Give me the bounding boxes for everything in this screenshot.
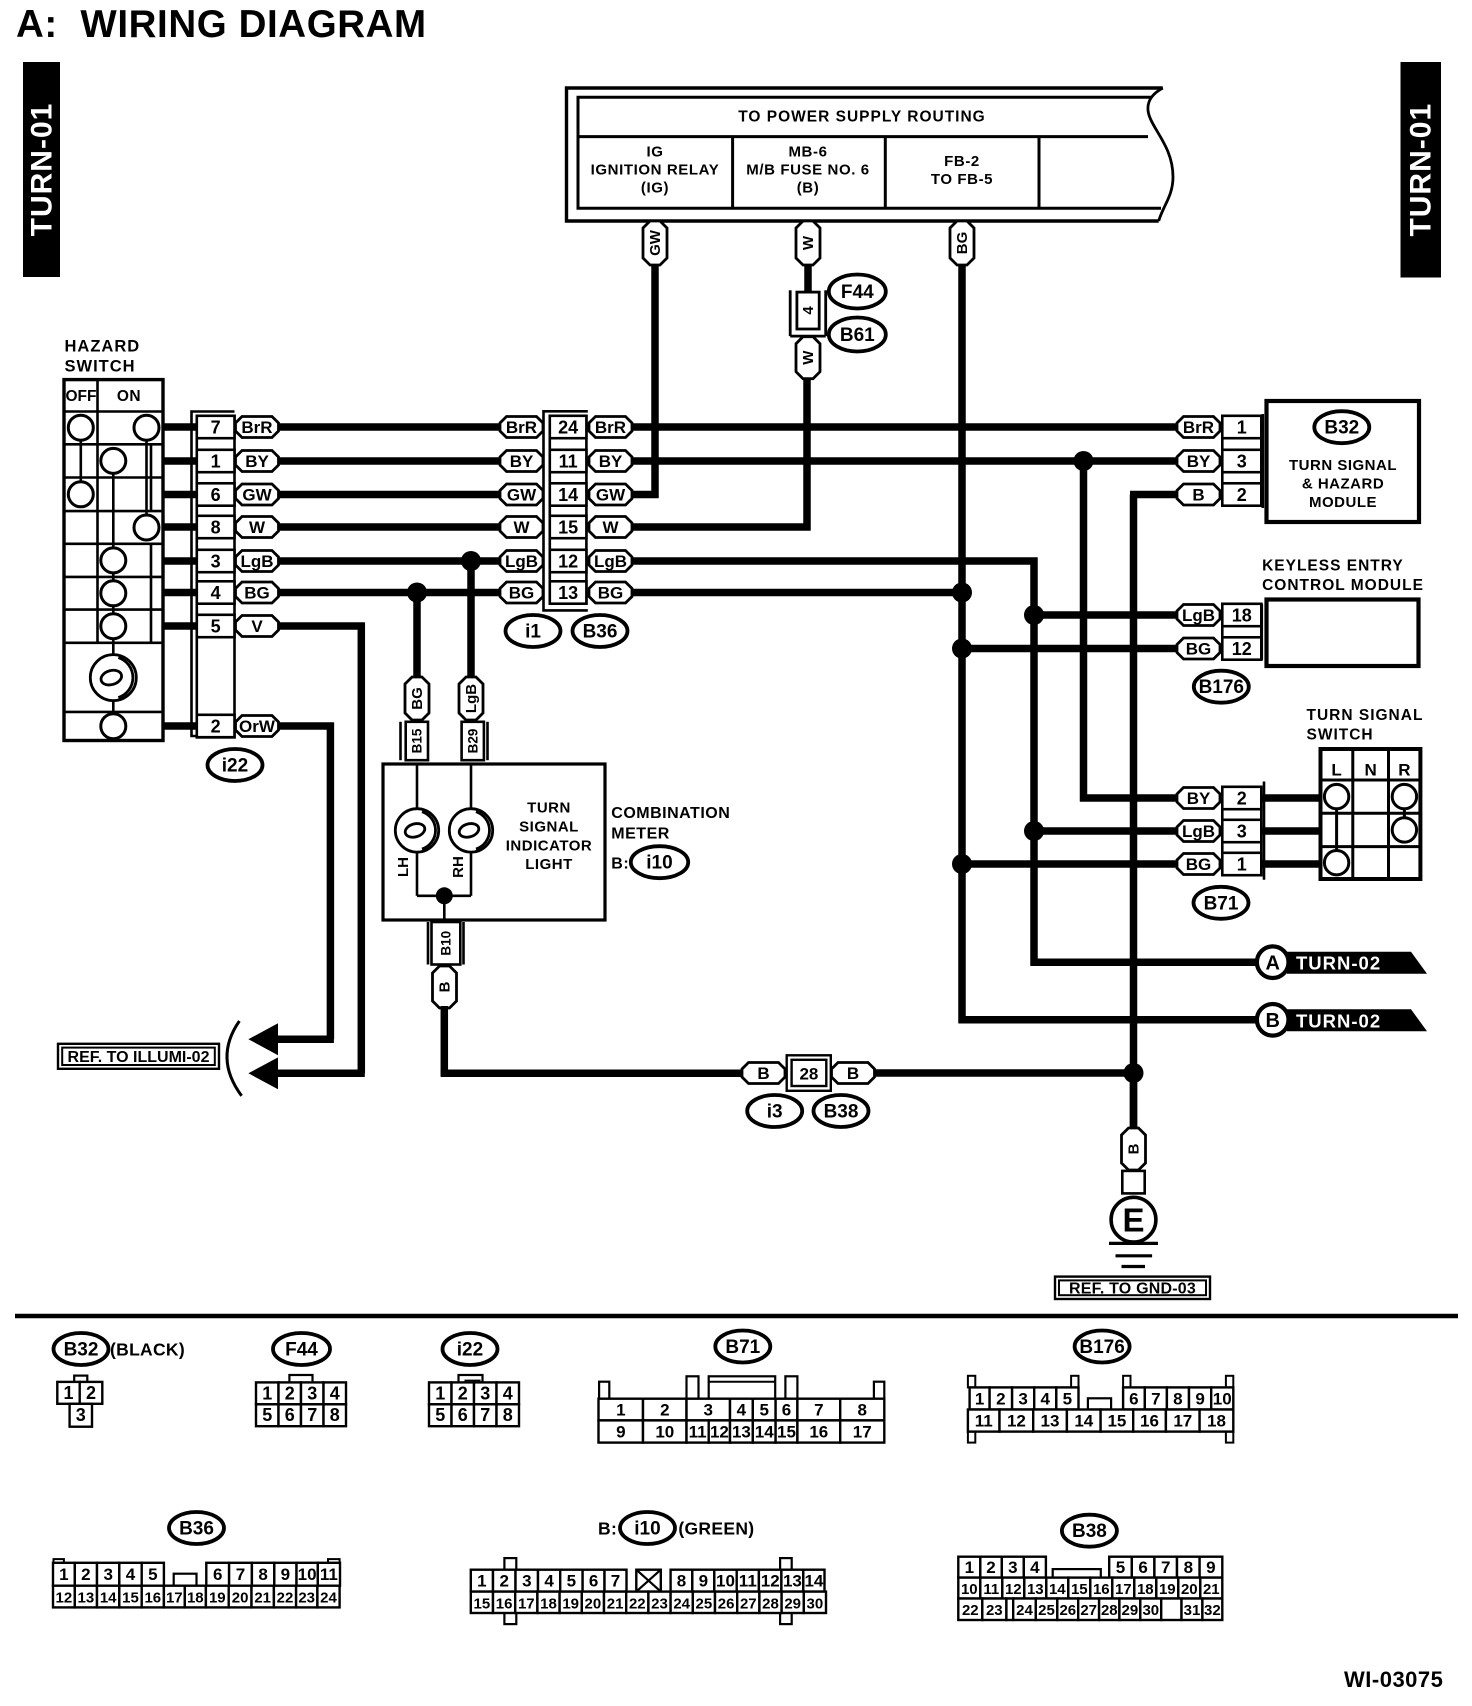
wire LgB down to B29 [467,561,475,678]
svg-text:4: 4 [800,306,817,315]
svg-text:V: V [251,617,263,636]
svg-text:8: 8 [1184,1558,1193,1577]
wire LgB to turn signal switch [1034,827,1177,835]
svg-text:21: 21 [254,1590,271,1607]
svg-text:5: 5 [759,1401,768,1420]
keyless module wire labels [1177,605,1220,660]
svg-text:12: 12 [1005,1581,1022,1598]
svg-text:1: 1 [211,451,221,471]
turn signal switch wire labels [1177,788,1220,875]
svg-text:17: 17 [853,1423,872,1442]
svg-text:4: 4 [1030,1558,1040,1577]
svg-text:6: 6 [211,485,221,505]
svg-text:8: 8 [330,1405,340,1425]
svg-text:TURN-02: TURN-02 [1296,1010,1381,1031]
svg-text:BG: BG [1186,855,1212,874]
svg-text:13: 13 [783,1572,802,1591]
svg-text:1: 1 [616,1401,625,1420]
svg-text:LgB: LgB [240,552,273,571]
wires B71 to switch body [1261,798,1322,864]
meter text TURN SIGNAL INDICATOR LIGHT [506,800,592,873]
wire to connector A TURN-02 [1031,959,1261,967]
pin W below fuse [796,337,820,379]
svg-text:TURN SIGNAL: TURN SIGNAL [1289,457,1397,474]
svg-text:8: 8 [503,1405,513,1425]
svg-text:15: 15 [777,1423,796,1442]
bottom connector i22 label [443,1333,498,1365]
svg-text:3: 3 [307,1383,317,1403]
svg-text:24: 24 [1016,1602,1033,1619]
wire splice to ground vertical [875,1069,1138,1077]
right TURN-01 tab [1401,62,1442,278]
svg-text:21: 21 [1203,1581,1220,1598]
svg-text:5: 5 [1063,1390,1072,1409]
svg-text:4: 4 [126,1565,136,1584]
svg-text:11: 11 [559,451,578,471]
wire BrR to turn signal module [633,423,1178,431]
pin LgB above B29 [459,677,483,720]
pin W at power box [796,221,820,265]
junction LgB to meter [461,551,481,571]
svg-text:21: 21 [607,1595,624,1612]
label B32 [1314,411,1369,443]
svg-text:16: 16 [496,1595,513,1612]
svg-text:17: 17 [518,1595,535,1612]
svg-text:B: B [1192,486,1204,505]
svg-text:SWITCH: SWITCH [1307,727,1374,744]
svg-text:COMBINATION: COMBINATION [611,805,730,822]
svg-text:BG: BG [509,584,535,603]
svg-text:BrR: BrR [241,418,272,437]
connector i1 left wire labels [500,417,543,604]
svg-text:B15: B15 [410,728,425,753]
svg-text:WI-03075: WI-03075 [1344,1667,1443,1692]
svg-text:BY: BY [510,452,534,471]
svg-text:18: 18 [1137,1581,1154,1598]
wire LgB to keyless module [1034,611,1177,619]
junction BG switch [952,854,972,874]
pin B below B10 [433,966,457,1008]
svg-text:15: 15 [122,1590,139,1607]
svg-text:TURN-01: TURN-01 [1405,103,1438,237]
svg-text:B:: B: [611,855,629,872]
svg-text:1: 1 [262,1383,272,1403]
svg-text:BG: BG [409,687,426,710]
svg-text:METER: METER [611,825,670,842]
svg-text:& HAZARD: & HAZARD [1302,476,1384,493]
turn signal switch label [1307,707,1424,744]
svg-text:2: 2 [986,1558,995,1577]
bottom connector B36 label [169,1512,224,1544]
svg-text:RH: RH [450,856,467,878]
svg-text:B: B [437,981,454,992]
bottom connector i10 label [598,1512,754,1544]
svg-text:BY: BY [1187,789,1211,808]
svg-text:GW: GW [647,229,664,256]
ref to gnd-03 box [1055,1277,1210,1299]
svg-text:ON: ON [117,388,141,405]
svg-text:23: 23 [986,1602,1003,1619]
combination meter box [383,764,605,920]
svg-text:B38: B38 [1072,1521,1107,1542]
pin BG above B15 [405,677,429,720]
svg-text:9: 9 [699,1572,708,1591]
ref to illumi-02 box [58,1044,219,1069]
connector arrow B TURN-02 [1257,1004,1427,1036]
svg-text:25: 25 [696,1595,713,1612]
svg-text:10: 10 [716,1572,735,1591]
svg-text:14: 14 [100,1590,117,1607]
svg-text:2: 2 [1237,788,1247,808]
keyless module pin cells [1222,604,1262,660]
svg-text:13: 13 [1027,1581,1044,1598]
svg-text:3: 3 [703,1401,712,1420]
connector i3/B38 left pin B [742,1063,785,1084]
svg-text:5: 5 [567,1572,576,1591]
svg-text:BY: BY [245,452,269,471]
svg-text:i10: i10 [646,853,672,874]
svg-text:19: 19 [209,1590,226,1607]
svg-text:3: 3 [1237,451,1247,471]
svg-text:18: 18 [540,1595,557,1612]
svg-text:16: 16 [1093,1581,1110,1598]
power box cell IG IGNITION RELAY (IG) [591,144,720,197]
junction B ground splice [1124,1063,1144,1083]
svg-text:B:: B: [598,1519,617,1539]
bottom connector B32 label [54,1333,109,1365]
svg-text:2: 2 [458,1383,468,1403]
svg-text:12: 12 [1232,639,1252,659]
svg-text:8: 8 [857,1401,866,1420]
svg-text:11: 11 [739,1572,757,1591]
connector i1/B36 pin cells [550,416,587,604]
svg-text:26: 26 [718,1595,735,1612]
svg-text:12: 12 [710,1423,729,1442]
svg-text:3: 3 [1018,1390,1027,1409]
svg-text:28: 28 [762,1595,779,1612]
label B: i10 [611,846,688,878]
svg-text:12: 12 [56,1590,73,1607]
svg-text:22: 22 [962,1602,979,1619]
svg-text:7: 7 [236,1565,245,1584]
svg-text:1: 1 [435,1383,445,1403]
svg-text:3: 3 [1237,821,1247,841]
svg-text:TURN-02: TURN-02 [1296,953,1381,974]
junction BG keyless [952,639,972,659]
wires i22 to i1 [279,427,501,593]
svg-text:3: 3 [76,1405,86,1425]
bottom connector F44 pin layout [256,1375,346,1426]
ground symbol [1109,1243,1158,1266]
svg-text:LgB: LgB [594,552,627,571]
svg-text:4: 4 [544,1572,554,1591]
svg-text:9: 9 [616,1423,625,1442]
svg-text:BG: BG [1186,640,1212,659]
connector B36 right wire labels [589,417,632,604]
svg-text:14: 14 [755,1423,774,1442]
svg-text:2: 2 [996,1390,1005,1409]
svg-text:LgB: LgB [463,684,480,713]
svg-text:B176: B176 [1199,677,1244,698]
svg-text:29: 29 [1122,1602,1139,1619]
svg-text:B38: B38 [824,1102,859,1123]
svg-text:6: 6 [1138,1558,1147,1577]
svg-text:27: 27 [740,1595,757,1612]
svg-text:B71: B71 [725,1337,760,1358]
svg-text:22: 22 [277,1590,294,1607]
hazard switch body [64,380,163,741]
bottom connector B71 label [715,1331,770,1363]
svg-text:5: 5 [1116,1558,1125,1577]
svg-text:B32: B32 [64,1340,99,1361]
connector i22 pin cells [197,416,235,737]
svg-text:9: 9 [1195,1390,1204,1409]
svg-text:6: 6 [1129,1390,1138,1409]
svg-text:19: 19 [562,1595,579,1612]
wire B from module down to ground [1130,495,1177,1130]
svg-text:29: 29 [784,1595,801,1612]
connector i1/B36 frame [544,411,588,610]
junction LgB keyless [1024,605,1044,625]
turn signal switch contacts [1324,784,1416,875]
svg-text:1: 1 [477,1572,486,1591]
svg-text:OFF: OFF [66,388,97,405]
svg-text:LIGHT: LIGHT [525,856,573,873]
hazard switch contacts [68,415,159,739]
svg-text:1: 1 [1237,417,1247,437]
power box cell FB-2 TO FB-5 [931,153,993,188]
svg-text:8: 8 [258,1565,267,1584]
svg-text:M/B FUSE NO. 6: M/B FUSE NO. 6 [746,162,869,179]
ground E circle [1111,1197,1156,1242]
svg-text:23: 23 [651,1595,668,1612]
svg-text:i10: i10 [634,1519,660,1540]
svg-text:LgB: LgB [1182,606,1215,625]
svg-text:REF. TO GND-03: REF. TO GND-03 [1069,1280,1196,1297]
svg-text:32: 32 [1204,1602,1221,1619]
svg-text:i1: i1 [525,622,541,643]
svg-text:13: 13 [732,1423,751,1442]
svg-text:7: 7 [814,1401,823,1420]
ground connector block [1122,1171,1144,1194]
label B36 [573,615,628,647]
svg-text:GW: GW [242,486,272,505]
svg-text:18: 18 [1207,1412,1226,1431]
combination meter label [611,805,730,842]
svg-text:BG: BG [954,232,971,255]
svg-text:R: R [1398,761,1410,780]
label i3 [747,1095,802,1127]
svg-text:7: 7 [211,417,221,437]
svg-text:26: 26 [1059,1602,1076,1619]
svg-text:24: 24 [320,1590,337,1607]
svg-text:GW: GW [596,486,626,505]
svg-text:8: 8 [211,517,221,537]
svg-text:6: 6 [589,1572,598,1591]
wire V to illumination ref [262,623,365,1074]
svg-text:10: 10 [298,1565,317,1584]
svg-text:E: E [1122,1202,1144,1239]
svg-text:B: B [757,1064,769,1083]
svg-text:(GREEN): (GREEN) [678,1519,754,1539]
svg-text:(BLACK): (BLACK) [110,1340,185,1360]
svg-text:12: 12 [1007,1412,1026,1431]
svg-text:LgB: LgB [505,552,538,571]
keyless entry control module box [1267,600,1419,667]
svg-text:2: 2 [211,716,221,736]
wire BY down to turn signal switch [1080,461,1177,802]
svg-text:7: 7 [611,1572,620,1591]
svg-text:9: 9 [1206,1558,1215,1577]
wire LgB to keyless and switch [633,558,1038,966]
keyless entry control module label [1262,558,1424,594]
svg-text:BG: BG [598,584,624,603]
svg-text:4: 4 [503,1383,513,1403]
svg-text:3: 3 [1008,1558,1017,1577]
bottom connector B38 label [1062,1515,1117,1547]
svg-text:BrR: BrR [1183,418,1214,437]
svg-text:15: 15 [1107,1412,1126,1431]
svg-text:REF. TO ILLUMI-02: REF. TO ILLUMI-02 [68,1049,210,1066]
wire B down to ground E [1130,1073,1138,1130]
svg-text:13: 13 [558,583,578,603]
svg-text:L: L [1331,761,1341,780]
svg-text:20: 20 [1181,1581,1198,1598]
svg-text:i22: i22 [457,1340,483,1361]
svg-text:2: 2 [499,1572,508,1591]
junction BG main vertical [952,583,972,603]
meter internal wiring [417,764,471,921]
svg-text:19: 19 [1159,1581,1176,1598]
svg-text:22: 22 [629,1595,646,1612]
svg-text:10: 10 [1213,1390,1232,1409]
svg-text:1: 1 [1237,854,1247,874]
label F44 [829,275,886,309]
svg-text:31: 31 [1184,1602,1201,1619]
svg-text:BY: BY [1187,452,1211,471]
connector i3/B38 right pin B [832,1063,875,1084]
wire OrW to illumination ref [262,723,334,1040]
svg-text:W: W [800,235,817,250]
svg-text:18: 18 [187,1590,204,1607]
svg-text:TURN: TURN [527,800,571,817]
label B61 [829,318,886,352]
svg-text:B: B [1265,1010,1279,1032]
hazard switch label [65,338,141,376]
svg-text:B32: B32 [1324,418,1359,439]
svg-text:F44: F44 [841,282,874,303]
svg-text:14: 14 [558,485,578,505]
bottom connector B32 pin layout [57,1376,102,1427]
svg-text:B: B [1126,1143,1143,1154]
svg-text:17: 17 [166,1590,183,1607]
hazard switch illumination bulb [90,655,136,701]
wire W below fuse down to i1 connector [633,377,811,531]
svg-text:13: 13 [78,1590,95,1607]
svg-text:B71: B71 [1204,893,1239,914]
junction LgB switch [1024,821,1044,841]
svg-text:5: 5 [435,1405,445,1425]
svg-text:18: 18 [1232,605,1252,625]
wire GW from ignition relay down [633,264,659,498]
svg-text:12: 12 [558,551,578,571]
svg-text:7: 7 [307,1405,317,1425]
svg-text:F44: F44 [285,1340,318,1361]
bottom connector F44 label [273,1333,330,1365]
module B32 text [1289,457,1397,511]
svg-text:i3: i3 [767,1102,783,1123]
pin B above ground [1122,1128,1146,1170]
svg-text:10: 10 [961,1581,978,1598]
wire B from meter to splice [441,1006,742,1077]
wire BG from FB-2 down [958,264,966,1023]
bottom connector i10 pin layout [471,1558,826,1624]
svg-text:1: 1 [59,1565,68,1584]
svg-text:B61: B61 [840,325,875,346]
svg-text:14: 14 [1049,1581,1066,1598]
wire W from fuse MB-6 down to fuse 4 [804,264,812,294]
power box cell MB-6 M/B FUSE NO. 6 (B) [746,144,869,197]
svg-text:IGNITION RELAY: IGNITION RELAY [591,162,720,179]
svg-text:SWITCH: SWITCH [65,357,136,375]
svg-text:KEYLESS ENTRY: KEYLESS ENTRY [1262,558,1404,575]
connector i22 wire labels [236,417,279,737]
junction BY [1074,451,1094,471]
label B176 [1194,671,1249,703]
connector i22 frame [192,412,235,738]
svg-text:2: 2 [86,1383,96,1403]
connector B15/B29 housing [401,722,488,760]
wire BY to turn signal module [633,457,1178,465]
svg-text:3: 3 [211,551,221,571]
svg-text:TURN-01: TURN-01 [26,103,59,237]
connector B10 [428,922,464,965]
svg-text:13: 13 [1041,1412,1060,1431]
svg-text:16: 16 [1140,1412,1159,1431]
pin BG at power box [950,221,974,265]
connector i3/B38 body 28 [787,1055,831,1091]
svg-text:7: 7 [480,1405,490,1425]
svg-text:9: 9 [281,1565,290,1584]
svg-text:23: 23 [298,1590,315,1607]
svg-text:B29: B29 [466,729,481,754]
svg-text:BG: BG [244,584,270,603]
svg-text:30: 30 [1142,1602,1159,1619]
svg-text:2: 2 [660,1401,669,1420]
svg-text:IG: IG [646,144,663,161]
svg-text:17: 17 [1173,1412,1192,1431]
svg-text:28: 28 [799,1064,818,1083]
wire BG row to vertical [633,589,963,597]
bottom connector B36 pin layout [53,1559,340,1607]
left TURN-01 tab [23,62,60,277]
svg-text:4: 4 [737,1401,747,1420]
turn signal switch body [1321,749,1421,879]
svg-text:BrR: BrR [595,418,626,437]
junction BG to meter [407,583,427,603]
svg-text:3: 3 [522,1572,531,1591]
svg-text:27: 27 [1080,1602,1097,1619]
svg-text:TURN SIGNAL: TURN SIGNAL [1307,707,1424,724]
label B38 [814,1095,869,1127]
svg-text:11: 11 [975,1412,993,1431]
svg-text:LH: LH [395,857,412,877]
svg-text:12: 12 [761,1572,780,1591]
svg-text:1: 1 [975,1390,984,1409]
svg-text:HAZARD: HAZARD [65,338,141,356]
svg-text:10: 10 [655,1423,674,1442]
svg-text:14: 14 [1074,1412,1093,1431]
